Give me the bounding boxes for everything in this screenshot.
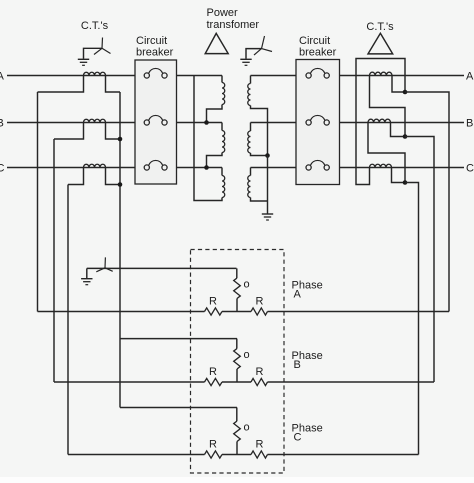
svg-text:R: R	[256, 296, 264, 308]
svg-text:breaker: breaker	[299, 47, 337, 59]
svg-text:B: B	[0, 117, 4, 129]
svg-text:R: R	[256, 439, 264, 451]
svg-text:A: A	[0, 70, 5, 82]
svg-text:C: C	[0, 162, 5, 174]
svg-text:R: R	[209, 366, 217, 378]
svg-text:B: B	[294, 359, 301, 371]
svg-text:o: o	[243, 349, 249, 361]
svg-text:C.T.'s: C.T.'s	[81, 20, 109, 32]
svg-text:B: B	[466, 118, 473, 130]
svg-text:transfomer: transfomer	[207, 19, 260, 31]
svg-text:R: R	[256, 366, 264, 378]
svg-text:Power: Power	[207, 7, 239, 19]
svg-text:breaker: breaker	[136, 47, 174, 59]
svg-text:R: R	[209, 296, 217, 308]
svg-text:o: o	[243, 279, 249, 291]
svg-text:C: C	[466, 163, 474, 175]
svg-text:Circuit: Circuit	[136, 35, 167, 47]
svg-text:o: o	[243, 422, 249, 434]
svg-text:A: A	[294, 289, 302, 301]
svg-text:R: R	[209, 439, 217, 451]
svg-text:C: C	[294, 432, 302, 444]
svg-text:A: A	[466, 71, 474, 83]
svg-text:Circuit: Circuit	[299, 35, 330, 47]
svg-text:C.T.'s: C.T.'s	[366, 21, 394, 33]
